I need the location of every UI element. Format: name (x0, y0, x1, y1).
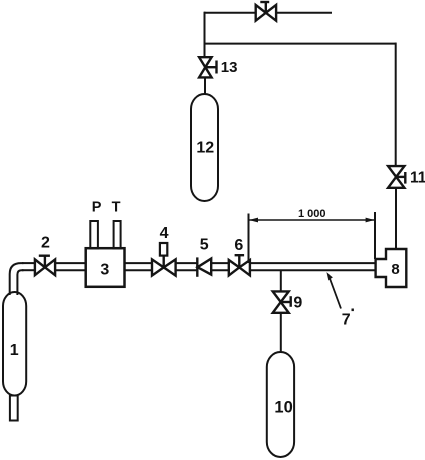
leader line for label 7 (329, 275, 342, 309)
cylinder 12 (191, 94, 218, 201)
wire from valve 13 to cylinder 12 (204, 77, 206, 95)
pipe segment valve 4 to valve 5 (double line) (176, 262, 197, 264)
svg-text:P: P (92, 200, 102, 216)
svg-text:7: 7 (342, 311, 351, 328)
valve 11 (388, 166, 405, 188)
pipe segment 7: valve 6 to box 8 (double line tube) (250, 262, 376, 264)
cylinder 1 (3, 292, 26, 396)
pipe segment elbow to valve 2 (double line) (22, 262, 35, 264)
wire right vertical down to valve 11 (395, 43, 397, 167)
valve 13 (199, 57, 216, 77)
svg-text:5: 5 (200, 237, 209, 254)
svg-text:9: 9 (293, 295, 302, 312)
box 3 (instrument with P and T ports) (86, 248, 125, 287)
wire from valve 11 down to box 8 (395, 188, 397, 249)
dimension extension line left (x=248.5) (248, 214, 250, 264)
cylinder 10 (267, 352, 294, 457)
valve 2 (35, 256, 55, 276)
small prime mark next to 7 (352, 309, 354, 312)
actuator rectangle of valve 4 (160, 243, 167, 256)
valve 6 (229, 255, 250, 275)
svg-text:1 000: 1 000 (298, 208, 326, 220)
wire top line right segment (276, 12, 332, 14)
svg-text:6: 6 (234, 237, 243, 254)
elbow pipe (double line bend) at far left (10, 263, 24, 295)
bottom stub of cylinder 1 (10, 396, 18, 421)
svg-text:2: 2 (41, 235, 50, 252)
wire top line left segment (204, 12, 256, 14)
svg-text:10: 10 (274, 399, 292, 417)
wire horizontal second line (204, 43, 397, 45)
pipe segment valve 5 to valve 6 (double line) (211, 262, 229, 264)
svg-text:T: T (112, 199, 121, 215)
dimension extension line right (x=375) (374, 212, 376, 259)
valve V-top (unnumbered) (256, 2, 276, 21)
svg-text:12: 12 (196, 140, 214, 157)
wire from valve 9 down to cylinder 10 (280, 313, 282, 353)
svg-text:8: 8 (391, 261, 399, 278)
pipe segment valve 2 to box 3 (double line) (55, 262, 86, 264)
T stub port on box 3 (114, 221, 121, 249)
svg-text:1: 1 (10, 342, 19, 359)
box 8 (cross-shaped fitting) (376, 249, 407, 287)
wire from pipe down to valve 9 (280, 271, 282, 292)
svg-text:11: 11 (410, 170, 425, 187)
valve 4 with actuator box (152, 256, 176, 276)
pipe segment box 3 to valve 4 (double line) (125, 262, 153, 264)
svg-text:13: 13 (221, 59, 238, 76)
svg-text:3: 3 (100, 262, 109, 279)
dimension line 1000 with arrows (250, 219, 375, 221)
P stub port on box 3 (90, 221, 98, 249)
wire vertical from top line down to valve 13 (204, 12, 206, 58)
valve 9 (273, 291, 291, 312)
svg-text:4: 4 (160, 225, 169, 242)
valve 5 (check valve: bar + triangle pointing left) (197, 257, 211, 276)
